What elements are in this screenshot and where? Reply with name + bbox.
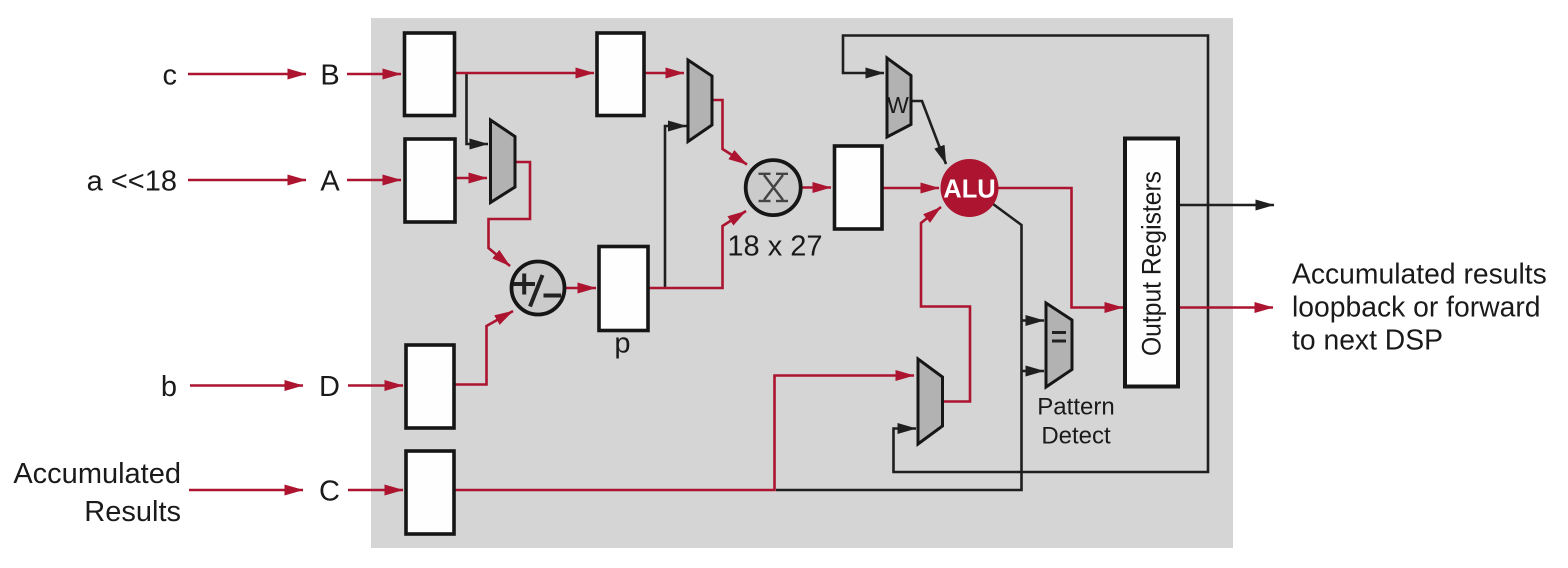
svg-text:c: c bbox=[163, 60, 178, 92]
svg-text:B: B bbox=[320, 60, 339, 92]
svg-text:Detect: Detect bbox=[1041, 423, 1111, 450]
svg-text:loopback or forward: loopback or forward bbox=[1292, 291, 1541, 323]
svg-text:D: D bbox=[319, 371, 340, 403]
svg-text:W: W bbox=[887, 92, 909, 118]
svg-text:A: A bbox=[320, 166, 340, 198]
svg-text:p: p bbox=[614, 328, 630, 360]
svg-text:18 x 27: 18 x 27 bbox=[727, 231, 822, 263]
svg-text:to next DSP: to next DSP bbox=[1292, 324, 1443, 356]
svg-text:a <<18: a <<18 bbox=[87, 166, 177, 198]
svg-text:Results: Results bbox=[84, 496, 181, 528]
svg-text:Accumulated results: Accumulated results bbox=[1292, 258, 1547, 290]
svg-text:C: C bbox=[319, 476, 340, 508]
svg-text:ALU: ALU bbox=[943, 176, 995, 204]
svg-text:b: b bbox=[161, 371, 177, 403]
svg-text:Pattern: Pattern bbox=[1037, 394, 1114, 421]
svg-text:Accumulated: Accumulated bbox=[13, 458, 181, 490]
svg-text:Output Registers: Output Registers bbox=[1137, 171, 1167, 356]
